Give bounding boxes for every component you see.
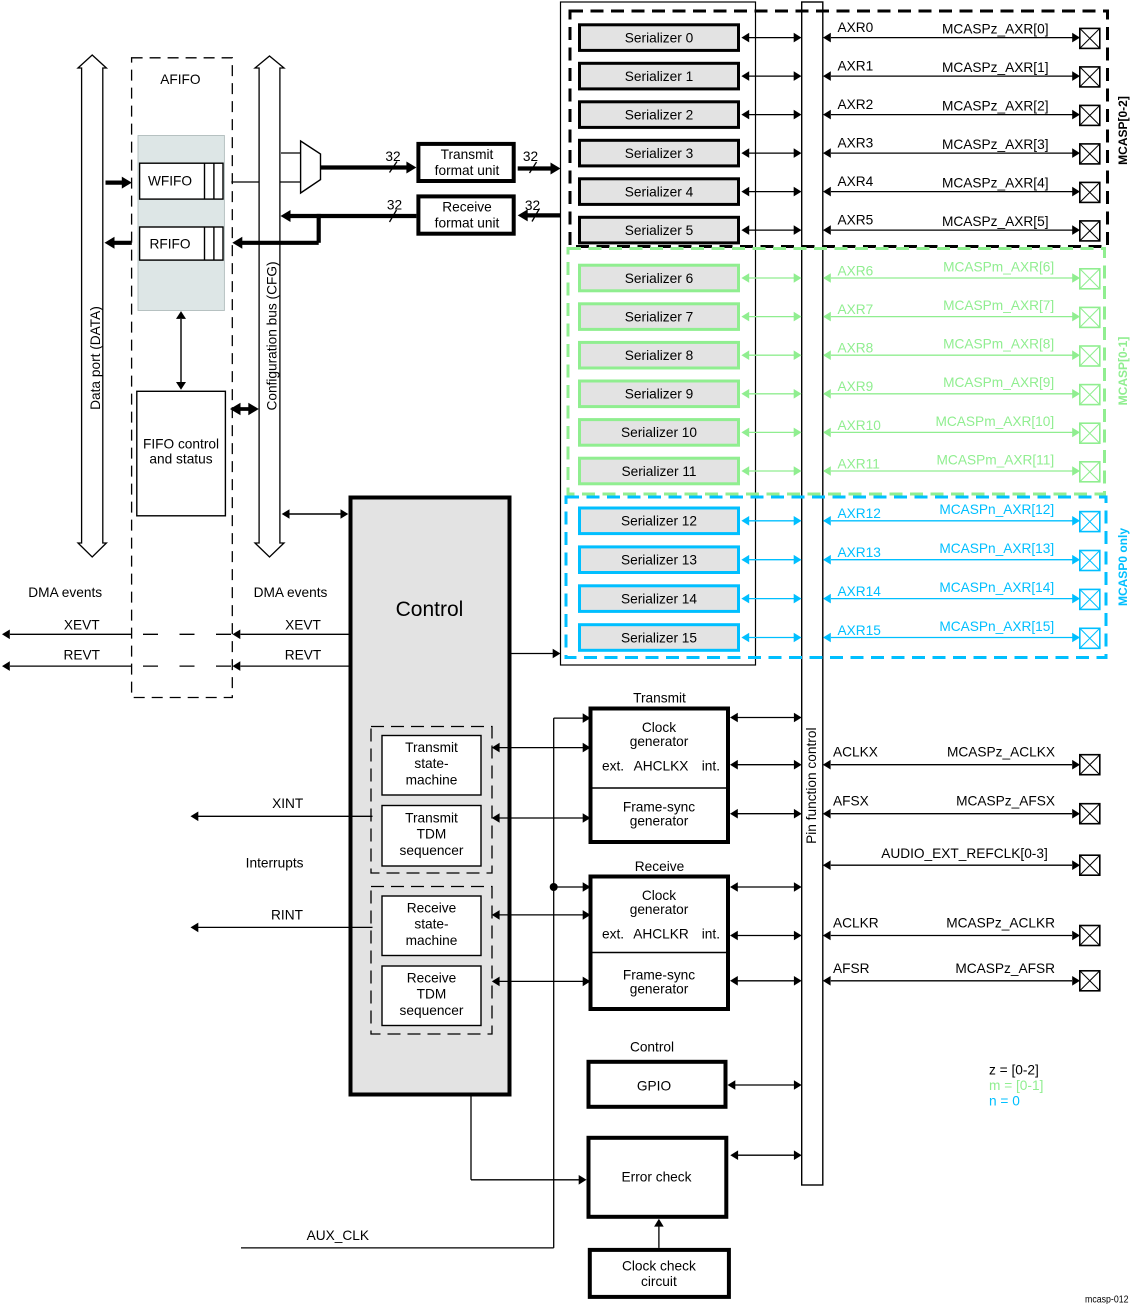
svg-text:MCASPn_AXR[14]: MCASPn_AXR[14]: [939, 580, 1054, 595]
svg-text:ACLKX: ACLKX: [833, 745, 878, 760]
svg-text:AXR3: AXR3: [838, 136, 874, 151]
svg-text:AHCLKR: AHCLKR: [633, 927, 689, 942]
svg-text:WFIFO: WFIFO: [148, 174, 192, 189]
svg-text:generator: generator: [630, 902, 689, 917]
svg-text:AXR13: AXR13: [838, 545, 882, 560]
svg-text:ext.: ext.: [602, 927, 624, 942]
svg-text:MCASPn_AXR[12]: MCASPn_AXR[12]: [939, 502, 1054, 517]
svg-text:XEVT: XEVT: [285, 618, 321, 633]
svg-text:MCASPm_AXR[6]: MCASPm_AXR[6]: [943, 259, 1054, 274]
svg-text:MCASPn_AXR[15]: MCASPn_AXR[15]: [939, 619, 1054, 634]
svg-text:MCASPz_ACLKR: MCASPz_ACLKR: [946, 916, 1055, 931]
svg-text:REVT: REVT: [64, 648, 101, 663]
svg-text:AFSR: AFSR: [833, 961, 870, 976]
svg-text:Control: Control: [396, 598, 464, 621]
svg-text:Control: Control: [630, 1040, 674, 1055]
svg-text:Serializer 0: Serializer 0: [625, 30, 694, 45]
svg-text:XINT: XINT: [272, 796, 304, 811]
svg-text:format unit: format unit: [435, 215, 500, 230]
svg-text:AXR2: AXR2: [838, 97, 874, 112]
svg-text:Receive: Receive: [442, 200, 491, 215]
svg-text:RINT: RINT: [271, 908, 304, 923]
svg-text:REVT: REVT: [285, 648, 322, 663]
svg-text:MCASPz_AXR[2]: MCASPz_AXR[2]: [942, 98, 1049, 113]
svg-text:machine: machine: [406, 772, 458, 787]
svg-text:Error check: Error check: [622, 1170, 692, 1185]
svg-text:Serializer 11: Serializer 11: [621, 464, 696, 479]
svg-text:MCASPz_AFSR: MCASPz_AFSR: [955, 961, 1055, 976]
svg-text:m = [0-1]: m = [0-1]: [989, 1078, 1043, 1093]
svg-text:MCASPm_AXR[8]: MCASPm_AXR[8]: [943, 337, 1054, 352]
svg-text:format unit: format unit: [435, 163, 500, 178]
svg-text:AXR1: AXR1: [838, 59, 874, 74]
svg-text:TDM: TDM: [417, 827, 447, 842]
svg-text:MCASPz_AXR[3]: MCASPz_AXR[3]: [942, 137, 1049, 152]
svg-text:Serializer 10: Serializer 10: [621, 425, 697, 440]
svg-text:Serializer 2: Serializer 2: [625, 107, 693, 122]
svg-text:MCASPz_ACLKX: MCASPz_ACLKX: [947, 745, 1055, 760]
svg-text:Pin function control: Pin function control: [804, 727, 819, 843]
svg-text:Frame-sync: Frame-sync: [623, 968, 695, 983]
svg-text:mcasp-012: mcasp-012: [1085, 1295, 1129, 1305]
svg-text:generator: generator: [630, 734, 689, 749]
svg-text:Serializer 13: Serializer 13: [621, 553, 697, 568]
svg-text:generator: generator: [630, 813, 689, 828]
svg-text:AXR0: AXR0: [838, 20, 874, 35]
svg-text:state-: state-: [414, 756, 448, 771]
svg-text:Clock: Clock: [642, 720, 676, 735]
svg-text:AFSX: AFSX: [833, 794, 869, 809]
svg-text:Serializer 14: Serializer 14: [621, 591, 697, 606]
svg-text:z = [0-2]: z = [0-2]: [989, 1063, 1039, 1078]
svg-text:sequencer: sequencer: [400, 1003, 464, 1018]
svg-text:DMA events: DMA events: [28, 585, 102, 600]
svg-text:MCASPz_AXR[0]: MCASPz_AXR[0]: [942, 21, 1049, 36]
svg-text:Serializer 15: Serializer 15: [621, 630, 697, 645]
svg-text:Serializer 9: Serializer 9: [625, 387, 693, 402]
svg-text:XEVT: XEVT: [64, 618, 100, 633]
svg-text:AXR4: AXR4: [838, 174, 874, 189]
svg-text:ext.: ext.: [602, 759, 624, 774]
svg-text:AXR12: AXR12: [838, 506, 881, 521]
svg-text:Clock check: Clock check: [622, 1258, 696, 1273]
svg-text:32: 32: [523, 149, 538, 164]
svg-text:Frame-sync: Frame-sync: [623, 800, 695, 815]
svg-text:Serializer 5: Serializer 5: [625, 223, 694, 238]
svg-text:MCASPz_AXR[1]: MCASPz_AXR[1]: [942, 60, 1049, 75]
svg-text:AHCLKX: AHCLKX: [634, 759, 689, 774]
svg-text:MCASP0 only: MCASP0 only: [1116, 528, 1130, 606]
svg-text:Serializer 12: Serializer 12: [621, 514, 697, 529]
svg-text:Receive: Receive: [635, 859, 684, 874]
svg-text:AXR7: AXR7: [838, 302, 874, 317]
svg-text:AXR14: AXR14: [838, 584, 882, 599]
svg-text:AUX_CLK: AUX_CLK: [307, 1228, 369, 1243]
svg-text:DMA events: DMA events: [254, 585, 328, 600]
svg-text:Serializer 7: Serializer 7: [625, 309, 693, 324]
svg-text:Clock: Clock: [642, 888, 676, 903]
svg-text:generator: generator: [630, 981, 689, 996]
svg-text:AXR15: AXR15: [838, 623, 882, 638]
svg-text:AXR10: AXR10: [838, 418, 882, 433]
svg-text:n = 0: n = 0: [989, 1094, 1020, 1109]
svg-text:AXR8: AXR8: [838, 341, 874, 356]
svg-text:AXR9: AXR9: [838, 379, 874, 394]
svg-text:FIFO control: FIFO control: [143, 436, 219, 451]
svg-text:ACLKR: ACLKR: [833, 916, 879, 931]
svg-text:MCASP[0-1]: MCASP[0-1]: [1116, 337, 1130, 406]
svg-text:Serializer 1: Serializer 1: [625, 69, 693, 84]
svg-text:Serializer 3: Serializer 3: [625, 146, 694, 161]
svg-text:and status: and status: [149, 452, 212, 467]
svg-text:AXR11: AXR11: [838, 456, 880, 471]
svg-text:int.: int.: [702, 927, 720, 942]
svg-text:RFIFO: RFIFO: [149, 237, 190, 252]
svg-text:Data port (DATA): Data port (DATA): [88, 306, 103, 410]
svg-text:circuit: circuit: [641, 1274, 677, 1289]
svg-text:Receive: Receive: [407, 900, 456, 915]
svg-text:MCASPz_AXR[5]: MCASPz_AXR[5]: [942, 214, 1049, 229]
svg-text:AFIFO: AFIFO: [160, 72, 200, 87]
svg-text:32: 32: [385, 149, 400, 164]
svg-text:AXR5: AXR5: [838, 213, 874, 228]
svg-text:int.: int.: [702, 759, 720, 774]
svg-text:GPIO: GPIO: [637, 1079, 671, 1094]
svg-text:MCASP[0-2]: MCASP[0-2]: [1116, 96, 1130, 165]
svg-text:Transmit: Transmit: [441, 147, 494, 162]
svg-text:MCASPn_AXR[13]: MCASPn_AXR[13]: [939, 541, 1054, 556]
svg-text:MCASPm_AXR[11]: MCASPm_AXR[11]: [937, 452, 1055, 467]
svg-text:MCASPz_AFSX: MCASPz_AFSX: [956, 794, 1055, 809]
svg-text:MCASPm_AXR[7]: MCASPm_AXR[7]: [943, 298, 1054, 313]
svg-text:Serializer 4: Serializer 4: [625, 184, 694, 199]
svg-text:sequencer: sequencer: [400, 843, 464, 858]
svg-text:Serializer 6: Serializer 6: [625, 271, 694, 286]
svg-text:Configuration bus (CFG): Configuration bus (CFG): [264, 261, 279, 410]
svg-text:Receive: Receive: [407, 970, 456, 985]
svg-text:state-: state-: [414, 917, 448, 932]
svg-text:machine: machine: [406, 933, 458, 948]
svg-text:MCASPz_AXR[4]: MCASPz_AXR[4]: [942, 175, 1049, 190]
svg-text:Transmit: Transmit: [405, 810, 458, 825]
svg-text:Transmit: Transmit: [633, 691, 686, 706]
svg-text:Serializer 8: Serializer 8: [625, 348, 694, 363]
svg-text:TDM: TDM: [417, 987, 447, 1002]
svg-text:MCASPm_AXR[9]: MCASPm_AXR[9]: [943, 375, 1054, 390]
svg-text:AXR6: AXR6: [838, 263, 874, 278]
svg-text:MCASPm_AXR[10]: MCASPm_AXR[10]: [936, 414, 1055, 429]
svg-text:AUDIO_EXT_REFCLK[0-3]: AUDIO_EXT_REFCLK[0-3]: [881, 846, 1048, 861]
svg-text:Transmit: Transmit: [405, 740, 458, 755]
svg-text:Interrupts: Interrupts: [246, 856, 304, 871]
svg-text:32: 32: [387, 198, 402, 213]
